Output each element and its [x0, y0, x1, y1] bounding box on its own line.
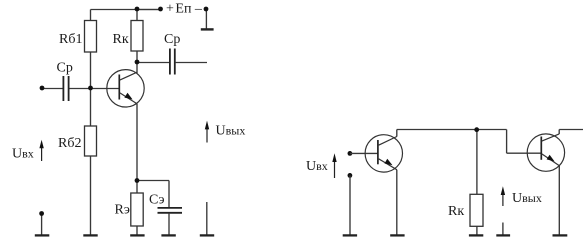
svg-text:Uвх: Uвх	[12, 147, 34, 162]
svg-text:Uвых: Uвых	[216, 124, 246, 139]
wire Rk bottom to collector node	[136, 51, 138, 73]
node right input lower	[348, 173, 353, 178]
wire Re bottom to ground	[136, 226, 138, 235]
wire top supply rail	[91, 9, 161, 11]
wire Rb1 top	[90, 10, 92, 21]
wire Uvyx right ground stub	[502, 223, 504, 235]
node base junction	[88, 86, 93, 91]
ground Ep	[201, 28, 214, 30]
transistor VT2	[365, 135, 402, 172]
svg-text:Uвых: Uвых	[512, 191, 542, 206]
wire node to Ce	[137, 180, 169, 182]
wire VT3 emitter down	[558, 166, 560, 235]
wire VT3 collector riser	[558, 130, 560, 135]
svg-text:Rэ: Rэ	[115, 202, 130, 217]
svg-text:Rб2: Rб2	[58, 136, 81, 151]
wire right input lower to ground	[349, 175, 351, 234]
wire emitter down to node	[136, 104, 138, 181]
svg-text:Uвх: Uвх	[306, 159, 328, 174]
svg-text:Еп –: Еп –	[175, 2, 203, 17]
wire jog to VT3 base	[507, 152, 541, 154]
svg-text:+: +	[166, 2, 174, 17]
wire Rk right bottom	[476, 226, 478, 234]
ground Uvyx right	[496, 234, 510, 236]
resistor Re	[131, 193, 143, 226]
ground Ce	[161, 234, 175, 236]
resistor Rb2	[85, 126, 97, 156]
wire Rb1 bottom to base node	[90, 52, 92, 126]
wire Ce bottom to ground	[168, 214, 170, 235]
ground Rk right	[469, 234, 483, 236]
wire right input to VT2 base	[350, 152, 378, 154]
transistor VT3	[527, 134, 564, 171]
node collector junction	[135, 60, 140, 65]
node input lower terminal	[39, 211, 44, 216]
svg-text:Сэ: Сэ	[149, 192, 165, 207]
wire Cp to base	[69, 88, 119, 90]
arrow Uvx right	[332, 153, 336, 178]
capacitor Ce	[158, 208, 183, 213]
arrow Uvyx left	[205, 121, 209, 143]
svg-text:Rб1: Rб1	[59, 32, 82, 47]
wire collector node to Cp out	[137, 62, 169, 64]
arrow Uvyx right	[501, 186, 505, 206]
ground right input	[343, 234, 357, 236]
node supply junction	[135, 7, 140, 12]
node input	[40, 86, 45, 91]
node collector rail junction	[474, 127, 479, 132]
capacitor Cp input	[63, 76, 68, 101]
wire node to Re	[136, 181, 138, 194]
resistor Rk right	[470, 194, 483, 226]
wire Rk top	[136, 10, 138, 21]
wire VT2 collector riser	[396, 130, 398, 137]
wire Ce top	[168, 181, 170, 208]
svg-text:Ср: Ср	[164, 32, 180, 47]
node supply terminal	[158, 7, 163, 12]
wire Rb2 bottom to ground	[90, 156, 92, 235]
ground input lower	[35, 234, 50, 236]
arrow Uvx left	[39, 140, 43, 161]
svg-text:Ср: Ср	[57, 61, 73, 76]
svg-text:Rк: Rк	[113, 32, 129, 47]
ground VT2 emitter	[390, 234, 404, 236]
wire Rk right top	[476, 129, 478, 194]
wire VT3 collector out	[559, 129, 583, 131]
resistor Rk	[131, 21, 143, 52]
wire input lower terminal to ground	[41, 214, 43, 235]
ground Re	[130, 234, 144, 236]
wire rail to +Ep terminal	[137, 9, 161, 11]
wire output ground stub	[206, 202, 208, 235]
ground Rb2	[83, 234, 97, 236]
wire VT2 emitter down	[396, 170, 398, 235]
node Ep right terminal	[204, 7, 209, 12]
node emitter junction	[135, 178, 140, 183]
node right input upper	[348, 151, 353, 156]
capacitor Cp output	[170, 49, 175, 75]
wire input terminal to Cp	[42, 88, 63, 90]
wire Ep terminal to ground	[205, 9, 207, 29]
ground output left	[200, 234, 214, 236]
wire Cp out to output end	[176, 62, 207, 64]
wire collector rail to junction	[397, 129, 507, 131]
wire junction down jog	[506, 130, 508, 154]
resistor Rb1	[85, 21, 97, 53]
svg-text:Rк: Rк	[448, 204, 464, 219]
ground VT3 emitter	[553, 234, 568, 236]
transistor VT1	[107, 70, 144, 107]
